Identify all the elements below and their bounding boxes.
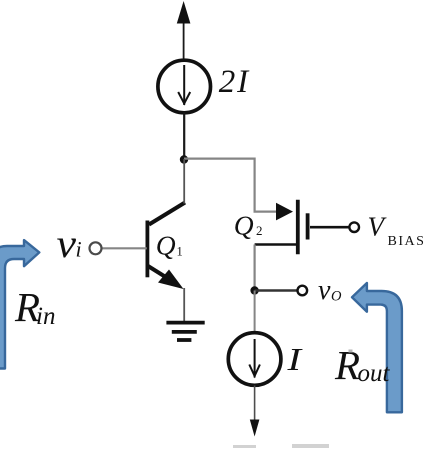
faint artifact dot above Rout <box>349 350 353 353</box>
svg-text:v: v <box>57 221 77 266</box>
faint cropped caption marks at bottom edge <box>233 444 329 448</box>
label 2I <box>219 64 250 100</box>
svg-text:2I: 2I <box>219 64 250 100</box>
transistor Q2 channel bar <box>296 200 300 255</box>
label VBIAS <box>368 212 424 250</box>
wire: node B to vo terminal <box>255 289 297 291</box>
wire: node B down to current source I <box>254 291 256 334</box>
wire: Q1 collector up to node A <box>183 159 185 204</box>
label Rout <box>334 342 391 388</box>
label vo <box>318 275 342 306</box>
ground <box>166 323 204 340</box>
terminal vo <box>298 286 308 296</box>
svg-text:Q: Q <box>234 210 254 241</box>
transistor Q1 base bar <box>145 221 149 278</box>
Q2 source line <box>255 243 296 246</box>
label I <box>286 341 302 377</box>
svg-text:v: v <box>318 275 331 306</box>
current source 2I <box>158 60 211 113</box>
wire: Q2 source down to node B <box>254 245 256 291</box>
Q1 emitter line with arrow <box>148 266 184 289</box>
svg-text:BIAS: BIAS <box>388 234 424 249</box>
wire: node A right and down to Q2 drain <box>184 159 278 212</box>
label Q1 <box>156 230 183 261</box>
wire: current source I to negative supply arrow <box>250 386 260 437</box>
terminal vi <box>90 242 102 254</box>
label Q2 <box>234 210 263 241</box>
label vi <box>57 221 82 266</box>
node B (output junction dot) <box>250 286 258 294</box>
transistor Q2 gate bar <box>306 213 310 239</box>
current source I <box>228 333 281 386</box>
svg-text:i: i <box>76 237 82 262</box>
Q2 drain arrow (points into channel) <box>276 203 293 221</box>
svg-text:1: 1 <box>177 245 183 259</box>
wire: Q2 gate to VBIAS terminal <box>310 226 349 229</box>
svg-text:R: R <box>334 342 360 388</box>
input resistance arrow (blue, points right at vi) <box>0 240 39 368</box>
svg-text:Q: Q <box>156 230 176 261</box>
svg-text:2: 2 <box>256 223 263 238</box>
output resistance arrow (blue, points left at vo) <box>352 283 402 412</box>
node A (collector junction dot) <box>180 155 188 163</box>
svg-text:O: O <box>331 289 342 305</box>
wire: vi terminal to Q1 base <box>102 247 147 249</box>
label Rin <box>14 284 55 330</box>
wire: 2I source to node A <box>183 113 185 160</box>
power supply arrow (VCC) <box>177 1 191 60</box>
terminal VBIAS <box>349 222 359 232</box>
svg-text:in: in <box>36 303 55 330</box>
Q1 collector line <box>149 203 185 225</box>
svg-text:I: I <box>286 341 302 377</box>
svg-text:out: out <box>358 360 391 387</box>
wire: Q1 emitter down to ground <box>183 288 185 321</box>
